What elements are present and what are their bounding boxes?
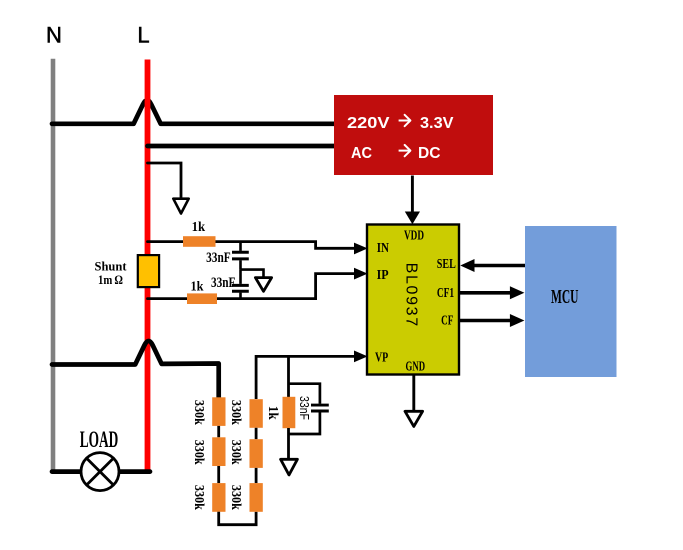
wire c1 r2-r3 (217, 466, 220, 483)
ground near L tap (173, 199, 188, 214)
svg-text:L: L (137, 23, 149, 48)
wire N neutral vertical (51, 59, 56, 472)
shunt resistor 1mOhm (138, 255, 159, 287)
wire VP net horizontal (256, 356, 355, 399)
ground divider (281, 459, 298, 475)
svg-text:330k: 330k (191, 400, 206, 425)
svg-text:CF1: CF1 (437, 286, 454, 301)
label 1k top (192, 220, 206, 235)
resistor 330k column1 R3 (212, 483, 225, 512)
wire IP net from L below shunt (148, 274, 356, 299)
svg-text:LOAD: LOAD (80, 427, 119, 452)
wire c1 r1-r2 (217, 426, 220, 437)
resistor 330k column1 R2 (212, 437, 225, 466)
wire 1k divider to ground (287, 428, 290, 459)
arrow into SEL pin (460, 259, 474, 272)
pin VP label (375, 350, 388, 365)
svg-text:330k: 330k (228, 485, 243, 510)
svg-text:330k: 330k (228, 400, 243, 425)
pin GND label (406, 359, 426, 374)
svg-text:330k: 330k (191, 440, 206, 465)
label 1k bottom (191, 280, 204, 295)
wire c2 r2-r3 (255, 468, 258, 483)
wire mains bottom N branch with hop over L (52, 341, 219, 398)
ground chip GND (405, 411, 423, 426)
capacitor 33nF upper filter (232, 242, 249, 270)
wire L live vertical (145, 60, 151, 474)
svg-text:IN: IN (377, 240, 389, 255)
svg-text:CF: CF (441, 313, 453, 328)
wire CF from chip to MCU (459, 319, 510, 323)
label 33nF upper (206, 250, 231, 266)
label 330k c1r3 (191, 485, 206, 510)
pin CF1 label (437, 286, 454, 301)
svg-text:MCU: MCU (551, 286, 579, 308)
arrow CF1 into MCU (510, 286, 525, 299)
wire VP to 1k divider (287, 356, 290, 398)
label 330k c2r1 (228, 400, 243, 425)
svg-text:IP: IP (377, 267, 389, 282)
wire CF1 from chip to MCU (459, 291, 510, 295)
wire SEL from MCU to chip (474, 264, 526, 268)
label 1k divider (265, 406, 280, 420)
wire bottom U joining columns (219, 512, 256, 525)
svg-text:VDD: VDD (404, 227, 424, 242)
pin IN label (377, 240, 389, 255)
svg-text:33nF: 33nF (206, 250, 231, 266)
resistor 330k column2 R3 (250, 483, 263, 512)
node L label (137, 23, 149, 48)
chip name BL0937 vertical (403, 263, 420, 327)
svg-text:N: N (46, 23, 62, 48)
svg-text:330k: 330k (228, 440, 243, 465)
ground filter midpoint (255, 278, 271, 292)
svg-text:1k: 1k (191, 280, 204, 295)
wire mains top N to AC/DC with hop over L (52, 100, 335, 124)
label 33nF lower (211, 275, 236, 291)
svg-text:SEL: SEL (437, 256, 456, 271)
svg-text:33nF: 33nF (211, 275, 236, 291)
pin IP label (377, 267, 389, 282)
chip U1 BL0937 body (367, 225, 459, 375)
MCU module (525, 226, 617, 377)
wire VDD supply arrow from AC/DC to chip (405, 176, 420, 225)
wire lamp bottom (52, 469, 150, 474)
svg-text:330k: 330k (191, 485, 206, 510)
svg-text:BL0937: BL0937 (403, 263, 420, 327)
resistor 330k column2 R1 (250, 399, 263, 428)
node N label (46, 23, 62, 48)
label 330k c2r3 (228, 485, 243, 510)
label Shunt 1mOhm (95, 260, 128, 287)
svg-text:1m Ω: 1m Ω (98, 273, 123, 287)
wire L tap to ground (148, 163, 182, 197)
capacitor 33nF divider (289, 384, 329, 434)
pin VDD label (404, 227, 424, 242)
label 33nF divider (297, 396, 312, 420)
label 330k c1r1 (191, 400, 206, 425)
AC/DC converter module 220V to 3.3V (334, 95, 493, 175)
arrow into IN pin (354, 243, 368, 255)
wire L to AC/DC (148, 144, 336, 149)
capacitor 33nF lower filter (232, 270, 249, 299)
resistor 1k bottom (187, 293, 217, 304)
wire filter midpoint to ground (241, 270, 264, 277)
label LOAD (80, 427, 119, 452)
pin SEL label (437, 256, 456, 271)
svg-text:GND: GND (406, 359, 426, 374)
resistor 330k column1 R1 (212, 397, 225, 426)
arrow CF into MCU (510, 314, 525, 327)
wire IN net from L above shunt (148, 242, 356, 249)
svg-text:1k: 1k (265, 406, 280, 420)
load lamp symbol (81, 453, 119, 491)
label 330k c1r2 (191, 440, 206, 465)
arrow into VP pin (354, 351, 368, 363)
resistor 1k divider vertical (283, 397, 296, 428)
wire GND to ground (412, 375, 415, 411)
svg-text:1k: 1k (192, 220, 206, 235)
svg-text:33nF: 33nF (297, 396, 312, 420)
pin CF label (441, 313, 453, 328)
svg-text:Shunt: Shunt (95, 260, 128, 274)
arrow into IP pin (354, 268, 368, 280)
resistor 1k top (183, 236, 216, 247)
svg-text:VP: VP (375, 350, 388, 365)
wire c2 r1-r2 (255, 428, 258, 439)
resistor 330k column2 R2 (250, 439, 263, 468)
label 330k c2r2 (228, 440, 243, 465)
